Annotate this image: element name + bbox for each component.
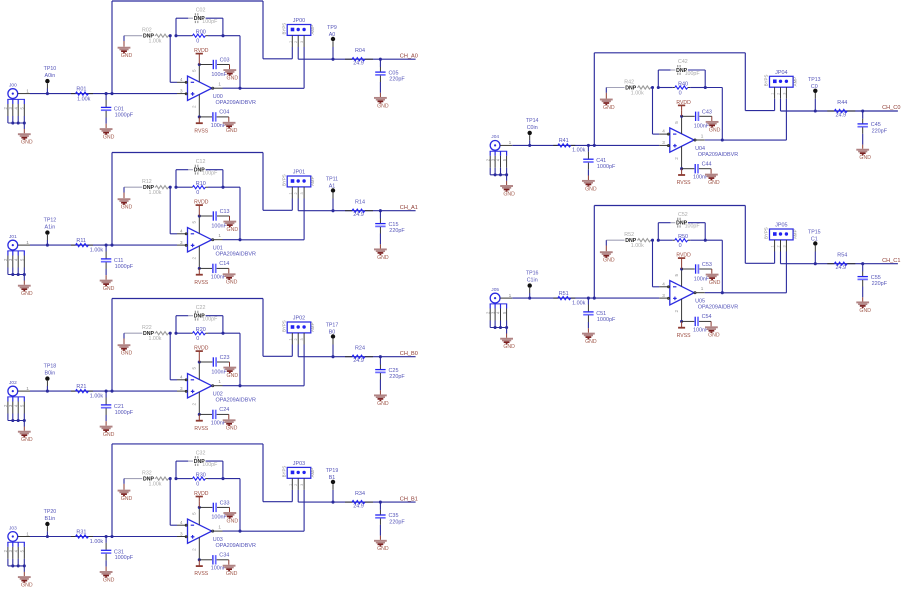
svg-text:RVSS: RVSS	[677, 333, 691, 339]
svg-text:220pF: 220pF	[389, 228, 405, 234]
svg-text:JP03: JP03	[293, 461, 305, 467]
svg-text:1: 1	[771, 245, 775, 247]
svg-text:100nF: 100nF	[211, 515, 227, 521]
svg-text:BYPS: BYPS	[764, 227, 769, 239]
capacitor C02 DNP 100pF	[176, 7, 223, 35]
svg-text:C43: C43	[702, 110, 712, 116]
capacitor C45 220pF	[858, 111, 888, 145]
svg-text:1000pF: 1000pF	[115, 410, 134, 416]
svg-text:2: 2	[294, 41, 298, 43]
test point TP9 (A0)	[327, 25, 337, 59]
svg-text:CH_C0: CH_C0	[882, 105, 900, 111]
test point TP19 (B1)	[326, 468, 339, 502]
ground (R52)	[600, 240, 615, 263]
svg-text:OPA209AIDBVR: OPA209AIDBVR	[216, 398, 256, 404]
wire output line	[298, 209, 415, 212]
svg-text:24.9: 24.9	[353, 503, 364, 509]
svg-text:1.00k: 1.00k	[90, 247, 104, 253]
op-amp U02 OPA209AIDBVR	[180, 362, 256, 414]
wire input loop to JP01 pin 1	[112, 153, 292, 246]
wire feedback	[170, 187, 240, 240]
svg-text:1.00k: 1.00k	[77, 97, 91, 103]
test point TP15 (C1)	[808, 230, 821, 264]
wire input loop to JP02 pin 1	[112, 299, 292, 392]
svg-text:GND: GND	[603, 105, 615, 111]
op-amp U05 OPA209AIDBVR	[662, 269, 738, 321]
resistor R51 1.00k	[553, 291, 585, 307]
ground (C14)	[223, 268, 238, 285]
ground (C34)	[223, 560, 238, 577]
capacitor C15 220pF	[375, 211, 405, 245]
svg-text:24.9: 24.9	[353, 212, 364, 218]
svg-text:1.00k: 1.00k	[149, 190, 162, 196]
wire main input	[500, 297, 669, 300]
resistor R40 0	[651, 82, 707, 97]
test point TP20 (B1in)	[44, 509, 57, 537]
svg-text:TP11: TP11	[326, 177, 338, 183]
ground (C15)	[374, 244, 389, 260]
wire input loop to JP04 pin 1	[594, 53, 774, 146]
resistor R44 24.9	[827, 100, 855, 118]
svg-text:GND: GND	[121, 205, 133, 211]
connector J02	[3, 380, 29, 421]
wire output line	[298, 355, 415, 358]
svg-text:R51: R51	[559, 291, 569, 297]
svg-text:CH_B1: CH_B1	[400, 496, 418, 502]
ground (J03 shield)	[11, 564, 33, 588]
svg-text:24.9: 24.9	[836, 112, 847, 118]
svg-text:1000pF: 1000pF	[115, 112, 134, 118]
svg-text:3: 3	[662, 293, 665, 298]
svg-text:A1: A1	[329, 184, 336, 190]
ground (C13)	[223, 216, 238, 233]
ground (R32)	[118, 479, 133, 502]
svg-text:GND: GND	[121, 53, 133, 59]
resistor R21 1.00k	[71, 384, 103, 400]
svg-text:CH_C1: CH_C1	[882, 258, 900, 264]
svg-text:R54: R54	[837, 253, 847, 259]
ground (J00 shield)	[11, 121, 33, 145]
wire input loop to JP03 pin 1	[112, 444, 292, 537]
svg-text:1.00k: 1.00k	[90, 539, 104, 545]
ground (C53)	[706, 269, 721, 286]
ground (C05)	[374, 93, 389, 110]
svg-text:3: 3	[180, 88, 183, 93]
svg-text:1000pF: 1000pF	[597, 317, 616, 323]
ground (C44)	[705, 169, 720, 186]
svg-text:AMP: AMP	[793, 77, 798, 87]
svg-text:3: 3	[300, 192, 304, 194]
capacitor C55 220pF	[858, 264, 888, 298]
power RVSS	[194, 413, 208, 432]
svg-text:24.9: 24.9	[353, 358, 364, 364]
svg-text:1: 1	[288, 192, 292, 194]
capacitor C52 DNP 100pF	[658, 212, 705, 240]
svg-text:220pF: 220pF	[389, 374, 405, 380]
svg-text:R34: R34	[355, 491, 365, 497]
svg-text:TP12: TP12	[44, 218, 57, 224]
wire op-amp output	[696, 138, 787, 141]
svg-text:C05: C05	[389, 70, 399, 76]
ground (C35)	[374, 536, 389, 553]
svg-text:GND: GND	[226, 280, 238, 286]
svg-text:R24: R24	[355, 346, 365, 352]
svg-text:3: 3	[180, 240, 183, 245]
connector J03	[3, 525, 29, 566]
ground (R22)	[118, 333, 133, 356]
svg-text:C23: C23	[220, 355, 230, 361]
capacitor C31 1000pF	[101, 537, 134, 567]
ground (C01)	[100, 124, 115, 141]
wire output line	[781, 109, 898, 112]
svg-text:OPA209AIDBVR: OPA209AIDBVR	[216, 252, 256, 258]
capacitor C03 100nF	[199, 58, 229, 78]
svg-text:GND: GND	[226, 426, 238, 432]
power RVDD	[194, 491, 209, 509]
svg-text:100pF: 100pF	[202, 317, 218, 323]
svg-text:GND: GND	[103, 432, 115, 438]
capacitor C14 100nF	[199, 261, 229, 280]
svg-text:100nF: 100nF	[211, 369, 227, 375]
svg-text:J01: J01	[9, 234, 17, 240]
wire output line	[298, 58, 415, 61]
ground (J04 shield)	[494, 173, 516, 197]
svg-text:GND: GND	[708, 180, 720, 186]
svg-text:1.00k: 1.00k	[149, 482, 162, 488]
ground (C11)	[100, 275, 115, 292]
svg-text:C32: C32	[196, 450, 206, 456]
wire op-amp output	[214, 530, 305, 533]
resistor R50 0	[651, 234, 707, 249]
svg-text:4: 4	[662, 281, 665, 286]
svg-text:GND: GND	[859, 308, 871, 314]
ground (J01 shield)	[11, 273, 33, 297]
capacitor C11 1000pF	[101, 245, 134, 275]
ground (J05 shield)	[494, 326, 516, 350]
svg-text:RVDD: RVDD	[194, 200, 209, 206]
power RVDD	[194, 200, 209, 218]
svg-text:C54: C54	[702, 314, 712, 320]
svg-text:1: 1	[218, 82, 221, 87]
svg-text:TP16: TP16	[526, 271, 539, 277]
svg-text:JP05: JP05	[775, 223, 787, 229]
svg-text:GND: GND	[377, 546, 389, 552]
test point TP16 (C1in)	[526, 271, 539, 299]
node CH_C0	[882, 105, 900, 111]
svg-text:GND: GND	[21, 140, 33, 146]
svg-text:GND: GND	[503, 191, 515, 197]
test point TP12 (A1in)	[44, 218, 57, 246]
svg-text:R14: R14	[355, 200, 365, 206]
test point TP18 (B0in)	[44, 364, 57, 392]
svg-text:CH_A0: CH_A0	[400, 53, 418, 59]
svg-text:R44: R44	[837, 100, 847, 106]
svg-text:GND: GND	[121, 496, 133, 502]
svg-text:5: 5	[192, 367, 197, 370]
wire input loop to JP05 pin 1	[594, 206, 774, 299]
capacitor C12 DNP 100pF	[176, 159, 223, 187]
svg-text:2: 2	[192, 257, 197, 260]
svg-text:R31: R31	[76, 529, 86, 535]
svg-text:4: 4	[662, 129, 665, 134]
svg-text:GND: GND	[121, 351, 133, 357]
svg-text:100nF: 100nF	[211, 223, 227, 229]
svg-text:CH_B0: CH_B0	[400, 351, 418, 357]
ground (C25)	[374, 390, 389, 407]
svg-text:1.00k: 1.00k	[572, 148, 586, 154]
svg-text:A1in: A1in	[45, 225, 56, 231]
connector J04	[485, 134, 511, 175]
svg-text:R21: R21	[76, 384, 86, 390]
svg-text:1: 1	[218, 379, 221, 384]
test point TP13 (C0)	[808, 77, 821, 111]
svg-text:2: 2	[777, 93, 781, 95]
svg-text:1.00k: 1.00k	[149, 39, 162, 45]
node CH_A0	[400, 53, 418, 59]
svg-text:GND: GND	[21, 583, 33, 589]
test point TP10 (A0in)	[44, 66, 57, 94]
svg-text:RVDD: RVDD	[676, 253, 691, 259]
svg-text:4: 4	[180, 520, 183, 525]
svg-text:OPA209AIDBVR: OPA209AIDBVR	[698, 305, 738, 311]
svg-text:C1: C1	[811, 237, 818, 243]
svg-text:1: 1	[701, 286, 704, 291]
svg-text:2: 2	[192, 548, 197, 551]
svg-text:3: 3	[782, 93, 786, 95]
svg-text:100pF: 100pF	[202, 19, 218, 25]
svg-text:TP20: TP20	[44, 509, 57, 515]
svg-text:JP00: JP00	[293, 18, 305, 24]
svg-text:C02: C02	[196, 7, 206, 13]
svg-text:RVDD: RVDD	[676, 100, 691, 106]
svg-text:J00: J00	[9, 82, 17, 88]
svg-text:C12: C12	[196, 159, 206, 165]
svg-text:220pF: 220pF	[872, 281, 888, 287]
capacitor C51 1000pF	[583, 298, 616, 328]
wire op-amp output	[696, 291, 787, 294]
svg-text:C34: C34	[219, 553, 229, 559]
svg-text:GND: GND	[377, 103, 389, 109]
wire main input	[18, 244, 187, 247]
svg-text:4: 4	[180, 228, 183, 233]
ground (C51)	[582, 328, 597, 345]
svg-text:B1in: B1in	[45, 516, 56, 522]
svg-text:C13: C13	[220, 209, 230, 215]
capacitor C43 100nF	[682, 110, 712, 130]
svg-text:AMP: AMP	[310, 25, 315, 35]
svg-text:100nF: 100nF	[211, 72, 227, 78]
resistor R11 1.00k	[71, 238, 103, 254]
svg-text:R10: R10	[196, 181, 206, 187]
resistor R31 1.00k	[71, 529, 103, 545]
svg-text:100pF: 100pF	[202, 171, 218, 177]
svg-text:100nF: 100nF	[694, 124, 710, 130]
power RVSS	[194, 267, 208, 286]
svg-text:1: 1	[218, 233, 221, 238]
ground (C04)	[223, 117, 238, 134]
svg-text:0: 0	[196, 336, 199, 342]
ground (R42)	[600, 88, 615, 111]
ground (C43)	[706, 116, 721, 133]
jumper JP01	[281, 170, 315, 240]
svg-text:5: 5	[192, 512, 197, 515]
svg-text:1.00k: 1.00k	[90, 393, 104, 399]
svg-text:GND: GND	[103, 577, 115, 583]
svg-text:A0in: A0in	[45, 73, 56, 79]
svg-text:1: 1	[288, 484, 292, 486]
jumper JP02	[281, 316, 315, 386]
svg-text:5: 5	[674, 274, 679, 277]
svg-text:GND: GND	[226, 128, 238, 134]
resistor R10 0	[169, 181, 225, 196]
svg-text:B0: B0	[329, 330, 336, 336]
wire op-amp output	[214, 238, 305, 241]
svg-text:3: 3	[300, 338, 304, 340]
svg-text:TP9: TP9	[327, 25, 337, 31]
wire main input	[18, 390, 187, 393]
resistor R32 DNP 1.00k	[124, 471, 170, 488]
op-amp U03 OPA209AIDBVR	[180, 507, 256, 559]
svg-text:2: 2	[674, 157, 679, 160]
svg-text:C0in: C0in	[527, 125, 538, 131]
svg-text:3: 3	[180, 386, 183, 391]
svg-text:C03: C03	[220, 58, 230, 64]
capacitor C05 220pF	[375, 59, 405, 93]
ground (R12)	[118, 187, 133, 210]
svg-text:1.00k: 1.00k	[631, 91, 644, 97]
svg-text:2: 2	[294, 338, 298, 340]
svg-text:BYPS: BYPS	[281, 466, 286, 478]
svg-text:C52: C52	[678, 212, 688, 218]
ground (R02)	[118, 36, 133, 59]
capacitor C25 220pF	[375, 357, 405, 391]
svg-text:2: 2	[674, 310, 679, 313]
svg-text:C04: C04	[219, 110, 229, 116]
wire op-amp output	[214, 87, 305, 90]
svg-text:1000pF: 1000pF	[597, 164, 616, 170]
svg-text:100pF: 100pF	[685, 224, 701, 230]
svg-text:GND: GND	[227, 227, 239, 233]
svg-text:C55: C55	[871, 275, 881, 281]
svg-text:RVSS: RVSS	[194, 426, 208, 432]
connector J00	[3, 82, 29, 123]
svg-text:R20: R20	[196, 327, 206, 333]
node CH_A1	[400, 205, 418, 211]
resistor R12 DNP 1.00k	[124, 179, 170, 196]
svg-text:RVDD: RVDD	[194, 48, 209, 54]
svg-text:C25: C25	[389, 368, 399, 374]
resistor R20 0	[169, 327, 225, 342]
capacitor C54 100nF	[682, 314, 712, 333]
svg-text:0: 0	[679, 90, 682, 96]
svg-text:J05: J05	[491, 287, 499, 293]
capacitor C53 100nF	[682, 262, 712, 282]
svg-text:GND: GND	[708, 333, 720, 339]
svg-text:GND: GND	[709, 280, 721, 286]
resistor R52 DNP 1.00k	[606, 232, 652, 249]
svg-text:TP17: TP17	[326, 323, 339, 329]
power RVDD	[676, 100, 691, 118]
svg-text:AMP: AMP	[310, 322, 315, 332]
wire input loop to JP00 pin 1	[112, 1, 292, 94]
svg-text:R11: R11	[76, 238, 86, 244]
wire main input	[18, 92, 187, 95]
svg-text:4: 4	[180, 77, 183, 82]
ground (C23)	[223, 362, 238, 379]
svg-text:OPA209AIDBVR: OPA209AIDBVR	[216, 543, 256, 549]
power RVDD	[194, 48, 209, 66]
wire main input	[500, 144, 669, 147]
power RVSS	[677, 167, 691, 186]
svg-text:2: 2	[192, 403, 197, 406]
capacitor C01 1000pF	[101, 94, 134, 124]
svg-text:GND: GND	[859, 155, 871, 161]
svg-text:1: 1	[218, 525, 221, 530]
svg-text:C15: C15	[389, 222, 399, 228]
node CH_C1	[882, 258, 900, 264]
svg-text:2: 2	[294, 192, 298, 194]
svg-text:GND: GND	[585, 186, 597, 192]
svg-text:R41: R41	[559, 138, 569, 144]
resistor R14 24.9	[345, 200, 373, 218]
svg-text:1: 1	[288, 41, 292, 43]
svg-text:C42: C42	[678, 59, 688, 65]
node CH_B1	[400, 496, 418, 502]
svg-text:220pF: 220pF	[389, 520, 405, 526]
svg-text:1: 1	[701, 134, 704, 139]
svg-text:24.9: 24.9	[836, 265, 847, 271]
svg-text:RVSS: RVSS	[194, 128, 208, 134]
svg-text:GND: GND	[709, 127, 721, 133]
capacitor C35 220pF	[375, 502, 405, 536]
svg-text:B1: B1	[329, 475, 336, 481]
resistor R41 1.00k	[553, 138, 585, 154]
svg-text:R30: R30	[196, 473, 206, 479]
svg-text:1: 1	[288, 338, 292, 340]
svg-text:RVSS: RVSS	[677, 180, 691, 186]
svg-text:5: 5	[192, 221, 197, 224]
svg-text:JP01: JP01	[293, 170, 305, 176]
svg-text:GND: GND	[227, 76, 239, 82]
svg-text:3: 3	[300, 484, 304, 486]
ground (J02 shield)	[11, 419, 33, 443]
jumper JP03	[281, 461, 315, 531]
svg-text:3: 3	[180, 531, 183, 536]
wire main input	[18, 535, 187, 538]
op-amp U00 OPA209AIDBVR	[180, 65, 256, 117]
svg-text:C44: C44	[702, 161, 712, 167]
svg-text:C14: C14	[219, 261, 229, 267]
svg-text:100pF: 100pF	[202, 462, 218, 468]
svg-text:5: 5	[192, 69, 197, 72]
power RVDD	[676, 253, 691, 271]
wire feedback	[653, 240, 723, 293]
resistor R30 0	[169, 473, 225, 488]
svg-text:C35: C35	[389, 513, 399, 519]
test point TP14 (C0in)	[526, 118, 539, 146]
capacitor C42 DNP 100pF	[658, 59, 705, 87]
svg-text:4: 4	[180, 374, 183, 379]
ground (C24)	[223, 414, 238, 431]
svg-text:1000pF: 1000pF	[115, 264, 134, 270]
svg-text:BYPS: BYPS	[281, 174, 286, 186]
resistor R02 DNP 1.00k	[124, 28, 170, 45]
svg-text:GND: GND	[103, 286, 115, 292]
svg-text:3: 3	[300, 41, 304, 43]
svg-text:J02: J02	[9, 380, 17, 386]
capacitor C23 100nF	[199, 355, 229, 375]
op-amp U01 OPA209AIDBVR	[180, 216, 256, 268]
